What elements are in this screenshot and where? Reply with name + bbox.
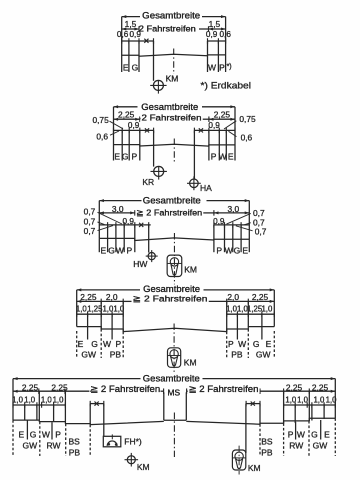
svg-text:2 Fahrstreifen: 2 Fahrstreifen	[142, 112, 202, 122]
section 4: 2,0 dimension left	[101, 300, 123, 302]
svg-text:≧ 2 Fahrstreifen: ≧ 2 Fahrstreifen	[90, 384, 160, 394]
section 4: 2,25 dimension left	[77, 300, 102, 302]
svg-text:W: W	[103, 339, 111, 349]
svg-text:2,25: 2,25	[252, 292, 269, 302]
svg-text:P: P	[228, 339, 234, 349]
section 5: KM symbol axis right	[238, 446, 240, 475]
section 5: 2,25 dimensions right	[260, 390, 335, 392]
section 5: FH fire hydrant symbol	[103, 436, 121, 447]
svg-text:0,7: 0,7	[84, 207, 96, 217]
section 5: MS median dimension	[163, 388, 165, 394]
svg-text:1,0: 1,0	[261, 305, 273, 314]
section 5: right tick row	[284, 404, 336, 406]
svg-text:KR: KR	[142, 177, 154, 187]
section 4: KM kilometre-stone symbol	[168, 348, 181, 368]
svg-text:W: W	[42, 429, 50, 439]
section 2: left tick row	[114, 129, 154, 131]
svg-text:1,0: 1,0	[313, 395, 325, 404]
section 5: verge letter bars left	[12, 420, 14, 456]
section 3: left verge separators	[107, 225, 109, 252]
svg-text:2,25: 2,25	[286, 382, 303, 392]
svg-text:2,25: 2,25	[312, 382, 329, 392]
section 1: left tick row 0,6 / 0,9	[122, 40, 154, 42]
section 2: left verge separators	[113, 130, 115, 160]
section 3: right tick row	[214, 224, 249, 226]
section 1: x-mark left	[144, 39, 148, 43]
section 4: 2,25 dimension right	[248, 300, 274, 302]
svg-text:P: P	[288, 430, 294, 440]
section 5: right road edge vertical	[259, 404, 261, 425]
svg-text:≧ 2 Fahrstreifen: ≧ 2 Fahrstreifen	[189, 384, 259, 394]
section 2: road surface line	[114, 144, 236, 146]
svg-text:E: E	[100, 246, 106, 256]
section 1: 2 Fahrstreifen dimension	[139, 28, 141, 30]
svg-text:0,6: 0,6	[96, 132, 108, 142]
section 5: KM kilometre-stone symbol right	[232, 450, 245, 470]
svg-text:E: E	[18, 429, 24, 439]
svg-text:GW: GW	[313, 441, 328, 451]
svg-text:E: E	[324, 430, 330, 440]
svg-text:P: P	[216, 246, 222, 256]
section 2: 2,25 dimension right	[209, 118, 235, 120]
section 2: HA symbol (circle with cross)	[190, 179, 199, 188]
section 2: right verge separators	[208, 130, 210, 160]
section 1: right tick row 0,9 / 0,6	[208, 40, 226, 42]
svg-text:1,0: 1,0	[53, 395, 65, 404]
section 1: KM feeder line	[153, 41, 155, 81]
svg-text:G: G	[108, 246, 115, 256]
svg-text:Gesamtbreite: Gesamtbreite	[142, 10, 200, 20]
section 5: Gesamtbreite dimension line	[13, 378, 141, 380]
svg-text:Gesamtbreite: Gesamtbreite	[143, 373, 200, 383]
svg-text:0,75: 0,75	[92, 115, 109, 125]
svg-text:HA: HA	[200, 183, 212, 193]
svg-text:3,0: 3,0	[227, 204, 239, 214]
svg-text:GW: GW	[256, 350, 271, 360]
section 2: Gesamtbreite dimension line	[114, 106, 138, 108]
section 3: HW feeder line	[148, 225, 150, 253]
svg-text:*) Erdkabel: *) Erdkabel	[201, 81, 252, 91]
section 5: left extension line	[12, 379, 14, 421]
svg-text:1,0: 1,0	[24, 395, 36, 404]
svg-text:G: G	[122, 151, 129, 161]
svg-text:2,0: 2,0	[106, 292, 118, 302]
section 5: cross-section surface line	[13, 420, 164, 425]
section 2: left extension line	[113, 107, 115, 131]
section 2: KR feeder tick	[153, 128, 155, 133]
section 1: right verge separators	[207, 41, 209, 72]
svg-text:1,5: 1,5	[209, 19, 221, 29]
section 4: right dimension verticals	[236, 314, 238, 329]
section 5: dimension verticals left	[38, 391, 40, 420]
svg-text:PB: PB	[231, 350, 243, 360]
section 3: HW feeder tick	[148, 222, 150, 228]
svg-text:W: W	[225, 246, 233, 256]
section 1: right extension line	[225, 17, 227, 41]
svg-text:2,25: 2,25	[22, 382, 39, 392]
svg-text:W: W	[297, 430, 305, 440]
section 2: centre axis	[173, 139, 175, 162]
svg-text:1,25: 1,25	[247, 305, 263, 314]
section 3: right verge separators	[213, 225, 215, 252]
svg-text:BS: BS	[261, 437, 273, 447]
svg-text:G: G	[311, 430, 318, 440]
svg-text:E: E	[123, 62, 129, 72]
section 2: 2,25 dimension left	[114, 118, 140, 120]
section 2: 2 Fahrstreifen dimension	[140, 118, 142, 120]
section 2: right extension line	[234, 107, 236, 131]
svg-text:W: W	[116, 246, 124, 256]
svg-text:0,6: 0,6	[241, 133, 253, 143]
svg-text:≧ 2 Fahrstreifen: ≧ 2 Fahrstreifen	[136, 207, 202, 217]
section 1: road surface line	[122, 54, 226, 56]
svg-text:PB: PB	[261, 447, 273, 457]
svg-text:P: P	[211, 151, 217, 161]
section 4: 2,0 dimension right	[227, 300, 249, 302]
section 3: left extension line	[98, 201, 100, 239]
svg-text:G: G	[91, 339, 98, 349]
section 5: median verticals	[163, 392, 165, 420]
section 5: left road edge vertical	[89, 404, 91, 425]
svg-text:P: P	[115, 339, 121, 349]
svg-text:GW: GW	[81, 350, 96, 360]
svg-text:1,0: 1,0	[226, 305, 238, 314]
section 1: 1,5 dimension right	[209, 28, 226, 30]
svg-text:2,25: 2,25	[214, 110, 231, 120]
section 3: centre axis	[173, 233, 175, 285]
section 1: single carriageway, Gesamtbreite dimension line	[122, 16, 140, 18]
section 4: right extension line	[273, 290, 275, 327]
section 1: left verge separators	[121, 41, 123, 72]
svg-text:E: E	[78, 339, 84, 349]
section 5: left tick row	[13, 404, 65, 406]
section 5: left roadway marker row	[90, 403, 104, 405]
svg-text:1,0: 1,0	[41, 395, 53, 404]
section 5: right extension line	[334, 379, 336, 419]
svg-text:KM: KM	[166, 74, 179, 84]
svg-text:G: G	[234, 246, 241, 256]
section 4: left extension line	[76, 290, 78, 327]
svg-text:W: W	[219, 151, 227, 161]
svg-text:1,0: 1,0	[76, 305, 88, 314]
section 2: HA feeder line	[193, 130, 195, 179]
section 4: Gesamtbreite dimension line	[77, 289, 140, 291]
svg-text:0,6: 0,6	[117, 30, 129, 39]
svg-text:RW: RW	[289, 441, 303, 451]
section 5: verge letter bars right	[259, 424, 261, 456]
svg-text:2,25: 2,25	[118, 110, 135, 120]
svg-text:KM: KM	[137, 462, 150, 472]
svg-text:2,25: 2,25	[51, 382, 68, 392]
section 3: HW symbol (circle with cross)	[148, 253, 155, 260]
svg-text:E: E	[228, 151, 234, 161]
svg-text:0,7: 0,7	[253, 208, 265, 218]
section 5: 2,25 dimensions left	[13, 390, 90, 392]
svg-text:0,9: 0,9	[206, 30, 218, 39]
section 5: KM symbol left (circle with cross)	[127, 456, 135, 464]
section 5: x-mark right roadway	[251, 402, 255, 406]
section 3: road surface line	[99, 238, 249, 241]
section 1: KM feeder tick	[153, 38, 155, 44]
section 5: centre axis	[173, 413, 175, 458]
section 4: right tick row	[227, 313, 275, 315]
section 3: 3,0 dimension right	[214, 212, 249, 214]
section 2: KR feeder line	[153, 130, 155, 166]
svg-text:P: P	[126, 246, 132, 256]
svg-text:≧ 2 Fahrstreifen: ≧ 2 Fahrstreifen	[133, 293, 208, 303]
section 5: right roadway marker row	[246, 403, 260, 405]
svg-text:HW: HW	[133, 259, 147, 269]
section 5: FH feeder line	[103, 404, 105, 437]
svg-text:G: G	[30, 429, 37, 439]
svg-text:MS: MS	[168, 387, 181, 397]
section 1: KM symbol (circle with cross)	[153, 80, 163, 90]
section 2: x-mark left	[145, 128, 149, 132]
svg-text:P: P	[219, 62, 225, 72]
section 5: >=2 Fahrstreifen dimension right roadway	[187, 390, 189, 392]
section 4: left dimension verticals	[87, 314, 89, 326]
svg-text:PB: PB	[110, 350, 122, 360]
section 4: road surface line	[77, 327, 275, 332]
svg-text:KM: KM	[248, 463, 261, 473]
svg-text:E: E	[242, 246, 248, 256]
svg-text:Gesamtbreite: Gesamtbreite	[141, 102, 198, 112]
section 3: KM kilometre-stone symbol	[167, 255, 182, 276]
svg-text:BS: BS	[69, 437, 81, 447]
svg-text:KM: KM	[184, 264, 197, 274]
svg-text:*): *)	[227, 63, 232, 70]
section 5: x-mark left roadway	[95, 402, 99, 406]
svg-text:E: E	[266, 339, 272, 349]
svg-text:0,6: 0,6	[220, 30, 232, 39]
section 3: left tick row	[99, 224, 150, 226]
svg-text:PB: PB	[69, 447, 81, 457]
section 3: >=2 Fahrstreifen dimension	[135, 212, 136, 214]
svg-text:0,7: 0,7	[84, 226, 96, 236]
svg-text:W: W	[238, 339, 246, 349]
section 1: centre axis	[173, 49, 175, 75]
section 4: >=2 Fahrstreifen dimension	[123, 300, 131, 302]
section 4: centre axis	[173, 324, 175, 374]
section 1: 1,5 dimension left	[122, 28, 139, 30]
svg-text:E: E	[114, 151, 120, 161]
svg-text:KM: KM	[184, 357, 197, 367]
svg-text:RW: RW	[46, 441, 60, 451]
svg-text:FH*): FH*)	[124, 437, 142, 447]
section 3: 3,0 dimension left	[99, 212, 135, 214]
section 2: KR symbol (circle with cross)	[154, 166, 164, 176]
section 3: x-mark left	[139, 223, 143, 227]
svg-text:2,25: 2,25	[80, 292, 97, 302]
svg-text:P: P	[55, 429, 61, 439]
svg-text:GW: GW	[22, 441, 37, 451]
section 3: right extension line	[248, 201, 250, 240]
svg-text:0,7: 0,7	[84, 217, 96, 227]
section 3: Gesamtbreite dimension line	[99, 200, 141, 202]
svg-text:Gesamtbreite: Gesamtbreite	[143, 195, 201, 205]
svg-text:2 Fahrstreifen: 2 Fahrstreifen	[139, 24, 196, 34]
svg-text:0,9: 0,9	[130, 30, 142, 39]
svg-text:G: G	[253, 339, 260, 349]
svg-text:0,7: 0,7	[255, 227, 267, 237]
svg-text:W: W	[208, 62, 216, 72]
section 2: x-mark right	[199, 128, 203, 132]
section 2: right tick row	[194, 129, 235, 131]
svg-text:0,75: 0,75	[239, 114, 256, 124]
svg-text:P: P	[131, 151, 137, 161]
svg-text:1,0: 1,0	[12, 395, 24, 404]
section 5: dimension verticals right	[308, 391, 310, 420]
section 1: left extension line	[121, 17, 123, 41]
svg-text:3,0: 3,0	[112, 204, 124, 214]
svg-text:G: G	[132, 62, 139, 72]
section 4: left tick row	[77, 313, 124, 315]
section 4: verge letter bars right	[226, 332, 228, 358]
section 4: verge letter bars left	[76, 331, 78, 358]
svg-text:2,0: 2,0	[227, 292, 239, 302]
svg-text:0,9: 0,9	[208, 121, 220, 130]
section 5: KM feeder line right	[245, 404, 247, 453]
